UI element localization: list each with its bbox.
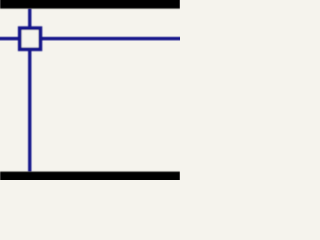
wire vertical [28, 9, 31, 172]
bottom letterbox bar [0, 172, 180, 182]
top letterbox bar [0, 0, 180, 9]
node junction square [20, 28, 41, 49]
schematic background [0, 0, 180, 180]
wire horizontal [0, 37, 182, 40]
